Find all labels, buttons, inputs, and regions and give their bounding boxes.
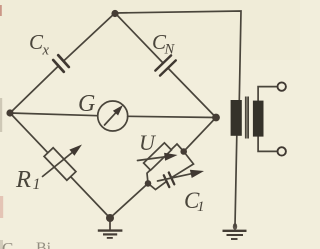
wire L to G xyxy=(10,113,98,116)
node B (bottom) xyxy=(106,214,114,222)
ground under transformer xyxy=(223,223,247,239)
wire secondary bottom to terminal xyxy=(258,137,277,152)
resistor R1 body xyxy=(44,148,76,181)
node L (left) xyxy=(6,109,13,116)
svg-text:C: C xyxy=(2,239,13,249)
wire L to B xyxy=(10,113,110,218)
node T (top) xyxy=(111,10,118,17)
capacitor Cx plates xyxy=(53,55,69,72)
ground under bottom node xyxy=(98,218,123,238)
loop upper link and branch with resistor U xyxy=(147,144,184,183)
wire secondary top to terminal xyxy=(258,87,277,101)
wire T to transformer top xyxy=(115,11,241,100)
junction D1 of U/C1 loop xyxy=(145,180,152,187)
galvanometer needle xyxy=(105,113,116,125)
loop lower link D1 side xyxy=(148,182,166,190)
wire T to Cx upper segment xyxy=(64,13,115,61)
wire Cx to L lower segment xyxy=(10,66,58,113)
transformer secondary winding bar xyxy=(253,101,264,137)
svg-text:1: 1 xyxy=(197,199,205,215)
loop lower link D2 side xyxy=(172,152,193,178)
wire transformer primary bottom to ground xyxy=(235,136,237,226)
junction D2 of U/C1 loop xyxy=(180,148,187,155)
terminal top xyxy=(278,82,286,90)
capacitor CN plates xyxy=(155,55,176,75)
arrow of R1 xyxy=(43,153,73,177)
arrow of C1 xyxy=(158,174,192,181)
wire G to R xyxy=(128,116,216,117)
transformer primary winding bar xyxy=(231,100,242,136)
arrow of U xyxy=(138,157,165,161)
svg-text:x: x xyxy=(42,43,50,59)
svg-text:Bi: Bi xyxy=(36,240,52,249)
wire D2 to R xyxy=(184,118,216,152)
svg-text:R: R xyxy=(15,166,31,193)
node R (right) xyxy=(212,114,220,122)
terminal bottom xyxy=(278,147,286,155)
svg-text:G: G xyxy=(78,91,95,117)
capacitor C1 plates xyxy=(164,173,175,188)
svg-text:N: N xyxy=(164,42,176,58)
transformer core lines xyxy=(245,97,247,139)
resistor U body xyxy=(144,143,172,170)
svg-text:1: 1 xyxy=(33,176,41,193)
wire CN to R lower segment xyxy=(168,69,216,118)
svg-text:U: U xyxy=(139,130,157,155)
galvanometer G circle xyxy=(98,101,128,131)
wire B to node D1 xyxy=(110,183,148,218)
wire T to CN upper segment xyxy=(115,13,163,63)
